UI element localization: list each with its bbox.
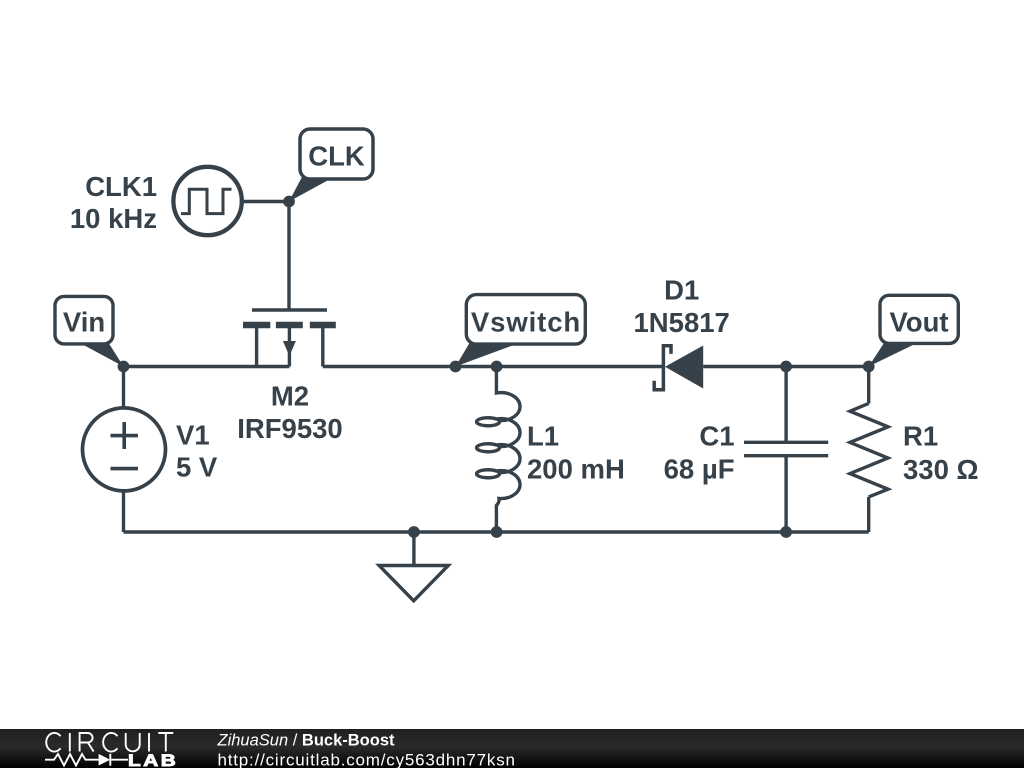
node C1 top junction [780, 361, 792, 373]
svg-text:L1: L1 [527, 421, 559, 452]
svg-text:V1: V1 [176, 420, 210, 451]
node CLK junction [283, 196, 295, 208]
node L1 top junction [491, 361, 503, 373]
node flag Vout [869, 295, 959, 366]
logo trace [45, 754, 128, 766]
resistor R1 [850, 403, 888, 497]
svg-text:1N5817: 1N5817 [634, 307, 730, 338]
node flag Vin [55, 296, 124, 366]
wire V1 top lead [122, 367, 125, 409]
svg-text:LAB: LAB [128, 751, 178, 768]
svg-text:C1: C1 [699, 421, 734, 452]
node flag Vswitch [456, 295, 586, 367]
logo diode [99, 754, 111, 766]
node C1 bottom junction [780, 526, 792, 538]
svg-text:200 mH: 200 mH [527, 454, 625, 485]
wire C1 top lead [784, 367, 787, 443]
label D1 value [634, 275, 730, 339]
node Vout junction [863, 361, 875, 373]
svg-text:R1: R1 [903, 421, 938, 452]
svg-text:IRF9530: IRF9530 [237, 413, 342, 444]
node ground junction [408, 526, 420, 538]
svg-text:Vout: Vout [889, 307, 948, 338]
svg-text:CLK: CLK [308, 141, 365, 172]
label R1 value [903, 421, 979, 486]
label V1 value [176, 420, 218, 483]
wire clock to CLK node [241, 200, 289, 203]
node Vin junction [118, 361, 130, 373]
wire top main right [703, 365, 869, 368]
label M2 value [237, 381, 342, 445]
wire ground stem [412, 532, 415, 566]
svg-text:http://circuitlab.com/cy563dhn: http://circuitlab.com/cy563dhn77ksn [218, 751, 516, 768]
svg-text:68 µF: 68 µF [664, 454, 735, 485]
label L1 value [527, 421, 625, 485]
svg-text:Vswitch: Vswitch [471, 307, 581, 338]
logo LAB text [128, 751, 178, 768]
wire bottom main [124, 530, 869, 533]
ground [379, 566, 448, 601]
node Vswitch junction [450, 361, 462, 373]
wire R1 top lead [867, 367, 870, 404]
label CLK1 value [70, 171, 157, 234]
wire V1 bottom lead [122, 491, 125, 533]
transistor M2 PMOS [243, 310, 336, 367]
clock source CLK1 [173, 167, 241, 235]
svg-text:330 Ω: 330 Ω [903, 454, 979, 485]
wire top main mid [323, 365, 664, 368]
inductor L1 [477, 367, 520, 533]
wire top main left [124, 365, 290, 368]
svg-text:10 kHz: 10 kHz [70, 203, 157, 234]
svg-text:D1: D1 [664, 275, 699, 306]
svg-text:ZihuaSun / Buck-Boost: ZihuaSun / Buck-Boost [217, 732, 395, 750]
voltage source V1 [83, 408, 166, 491]
svg-text:Vin: Vin [63, 307, 105, 338]
node flag CLK [289, 129, 373, 202]
logo CIRCUIT letters [46, 733, 173, 752]
capacitor C1 [744, 442, 828, 455]
wire R1 bottom lead [867, 497, 870, 532]
wire C1 bottom lead [784, 456, 787, 532]
svg-text:CLK1: CLK1 [85, 171, 157, 202]
M2 arrow [283, 341, 296, 356]
node L1 bottom junction [491, 526, 503, 538]
label C1 value [664, 421, 735, 485]
svg-text:M2: M2 [271, 381, 309, 412]
wire CLK node to gate [287, 202, 290, 311]
diode D1 schottky [654, 346, 671, 390]
svg-text:5 V: 5 V [176, 452, 218, 483]
